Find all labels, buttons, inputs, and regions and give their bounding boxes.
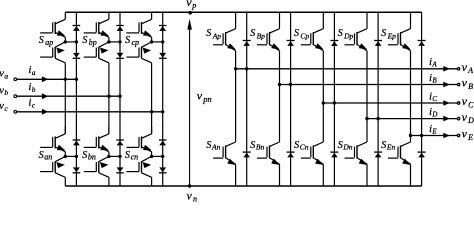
svg-text:b: b (32, 85, 36, 94)
svg-text:C: C (468, 100, 474, 109)
bidirectional switch S_cn (two IGBTs + two series diodes) (126, 127, 166, 186)
svg-text:S: S (206, 28, 211, 39)
label S_En (381, 140, 395, 152)
current arrow i_c (42, 109, 48, 115)
label S_Cn (294, 140, 309, 152)
output terminal v_A (457, 68, 459, 70)
label i_A (429, 56, 437, 68)
current arrow i_B (443, 82, 450, 88)
svg-text:S: S (338, 28, 343, 39)
label i_a (28, 64, 35, 77)
label v_B (462, 76, 474, 91)
svg-text:v: v (462, 127, 468, 141)
svg-text:S: S (82, 150, 87, 161)
current arrow i_a (42, 76, 48, 82)
junction node output phase B (278, 83, 293, 86)
svg-text:S: S (294, 28, 299, 39)
svg-text:E: E (467, 133, 473, 142)
junction node n (188, 184, 191, 187)
svg-text:S: S (381, 140, 386, 151)
label S_ap (39, 35, 53, 47)
label v_a (0, 68, 8, 80)
IGBT switch S_Dn with freewheel diode (345, 119, 383, 186)
wire input phase a (17, 78, 76, 80)
svg-text:cn: cn (131, 153, 139, 162)
IGBT switch S_Ep with freewheel diode (388, 12, 426, 135)
arrow v_pn (up) (187, 19, 192, 30)
label S_Dn (338, 140, 353, 152)
svg-text:S: S (206, 140, 211, 151)
junction node input phase b (107, 95, 122, 98)
svg-text:S: S (338, 140, 343, 151)
IGBT switch S_Cp with freewheel diode (301, 12, 339, 103)
svg-text:Cn: Cn (300, 143, 309, 152)
svg-text:S: S (39, 150, 44, 161)
svg-text:c: c (32, 101, 36, 110)
junction node p (188, 11, 192, 15)
svg-text:Dn: Dn (342, 143, 352, 152)
label i_b (28, 81, 35, 94)
IGBT switch S_An with freewheel diode (213, 69, 251, 186)
label v_b (0, 85, 8, 97)
svg-text:bn: bn (88, 153, 96, 162)
svg-text:S: S (82, 35, 87, 46)
label S_cn (125, 150, 138, 162)
svg-text:n: n (193, 194, 197, 203)
IGBT switch S_En with freewheel diode (388, 136, 426, 187)
svg-text:b: b (4, 88, 8, 97)
svg-text:v: v (197, 88, 203, 102)
label v_c (0, 101, 8, 113)
bidirectional switch S_bp (two IGBTs + two series diodes) (84, 12, 124, 96)
label v_p (186, 0, 196, 10)
current arrow i_b (42, 93, 48, 99)
svg-text:a: a (4, 71, 8, 80)
label v_D (462, 110, 474, 125)
label S_An (206, 140, 220, 152)
label S_cp (125, 35, 139, 47)
bidirectional switch S_bn (two IGBTs + two series diodes) (84, 127, 124, 186)
wire input phase b (17, 95, 120, 97)
svg-text:Ep: Ep (387, 32, 397, 41)
svg-text:bp: bp (89, 38, 97, 47)
label v_n (187, 191, 197, 204)
junction node output phase C (322, 101, 337, 104)
current arrow i_D (443, 116, 450, 122)
label i_c (28, 97, 35, 110)
svg-text:S: S (250, 28, 255, 39)
label i_D (429, 106, 437, 118)
label S_Dp (338, 28, 354, 40)
label v_pn (197, 88, 212, 104)
wire output phase D (367, 118, 457, 120)
svg-text:A: A (431, 61, 437, 69)
svg-text:S: S (39, 35, 44, 46)
svg-text:Cp: Cp (300, 32, 309, 41)
svg-text:S: S (381, 28, 386, 39)
output terminal v_C (457, 102, 459, 104)
svg-text:En: En (386, 143, 396, 152)
input terminal v_b (14, 95, 17, 98)
IGBT switch S_Ap with freewheel diode (213, 12, 251, 69)
svg-text:v: v (187, 191, 193, 203)
junction node output phase E (409, 134, 424, 137)
svg-text:cp: cp (132, 38, 140, 47)
bidirectional switch S_ap (two IGBTs + two series diodes) (40, 12, 80, 79)
label S_bp (82, 35, 96, 47)
IGBT switch S_Bp with freewheel diode (257, 12, 295, 84)
bidirectional switch S_cp (two IGBTs + two series diodes) (126, 12, 166, 112)
svg-text:D: D (431, 110, 437, 118)
label v_A (462, 60, 474, 75)
svg-text:ap: ap (45, 38, 53, 47)
junction node input phase c (150, 110, 164, 113)
svg-text:Bp: Bp (257, 32, 266, 41)
svg-text:Dp: Dp (343, 32, 353, 41)
output terminal v_E (457, 134, 459, 136)
wire output phase E (411, 135, 458, 137)
junction node input phase a (64, 78, 79, 81)
bidirectional switch S_an (two IGBTs + two series diodes) (40, 127, 80, 186)
wire input phase c (17, 111, 163, 113)
IGBT switch S_Cn with freewheel diode (301, 103, 339, 186)
svg-text:a: a (32, 68, 36, 77)
label S_bn (82, 150, 96, 162)
svg-text:an: an (44, 153, 52, 162)
wire negative DC rail (node n) (65, 185, 421, 187)
svg-text:v: v (462, 110, 468, 124)
label S_Cp (294, 28, 309, 40)
label v_E (462, 127, 474, 142)
svg-text:v: v (462, 60, 468, 74)
svg-text:v: v (462, 76, 468, 90)
wire phase b down to lower cell (109, 96, 120, 134)
svg-text:D: D (467, 116, 474, 125)
label S_Bp (250, 28, 265, 40)
wire output phase B (280, 84, 458, 86)
current arrow i_C (443, 100, 450, 106)
svg-text:E: E (431, 127, 437, 135)
wire positive DC rail (node p) (65, 11, 421, 13)
label i_B (429, 72, 437, 84)
wire output phase A (236, 68, 458, 70)
svg-text:S: S (250, 140, 255, 151)
wire phase c down to lower cell (152, 112, 163, 134)
input terminal v_a (14, 78, 17, 81)
svg-text:S: S (125, 150, 130, 161)
label i_E (429, 123, 437, 135)
svg-text:An: An (211, 143, 221, 152)
IGBT switch S_Dp with freewheel diode (345, 12, 383, 118)
svg-text:B: B (432, 76, 437, 84)
label S_an (39, 150, 53, 162)
label S_Ep (381, 28, 396, 40)
input terminal v_c (14, 110, 17, 113)
IGBT switch S_Bn with freewheel diode (257, 85, 295, 187)
label S_Ap (206, 28, 221, 40)
svg-text:A: A (467, 66, 473, 75)
wire v_pn measurement line (189, 29, 191, 186)
label i_C (429, 90, 437, 102)
junction node output phase A (234, 67, 248, 70)
svg-text:S: S (125, 35, 130, 46)
junction node output phase D (365, 117, 380, 120)
label v_C (462, 94, 474, 109)
label S_Bn (250, 140, 264, 152)
current arrow i_A (443, 66, 450, 72)
svg-text:p: p (191, 1, 196, 10)
svg-text:v: v (462, 94, 468, 108)
current arrow i_E (443, 133, 450, 139)
svg-text:C: C (432, 95, 437, 103)
output terminal v_B (457, 83, 459, 85)
svg-text:c: c (4, 104, 8, 113)
svg-text:B: B (468, 82, 473, 91)
svg-text:pn: pn (202, 94, 212, 104)
svg-text:Bn: Bn (256, 143, 265, 152)
wire phase a down to lower cell (65, 79, 76, 134)
output terminal v_D (457, 117, 459, 119)
svg-text:Ap: Ap (212, 32, 222, 41)
wire output phase C (323, 102, 457, 104)
svg-text:S: S (294, 140, 299, 151)
